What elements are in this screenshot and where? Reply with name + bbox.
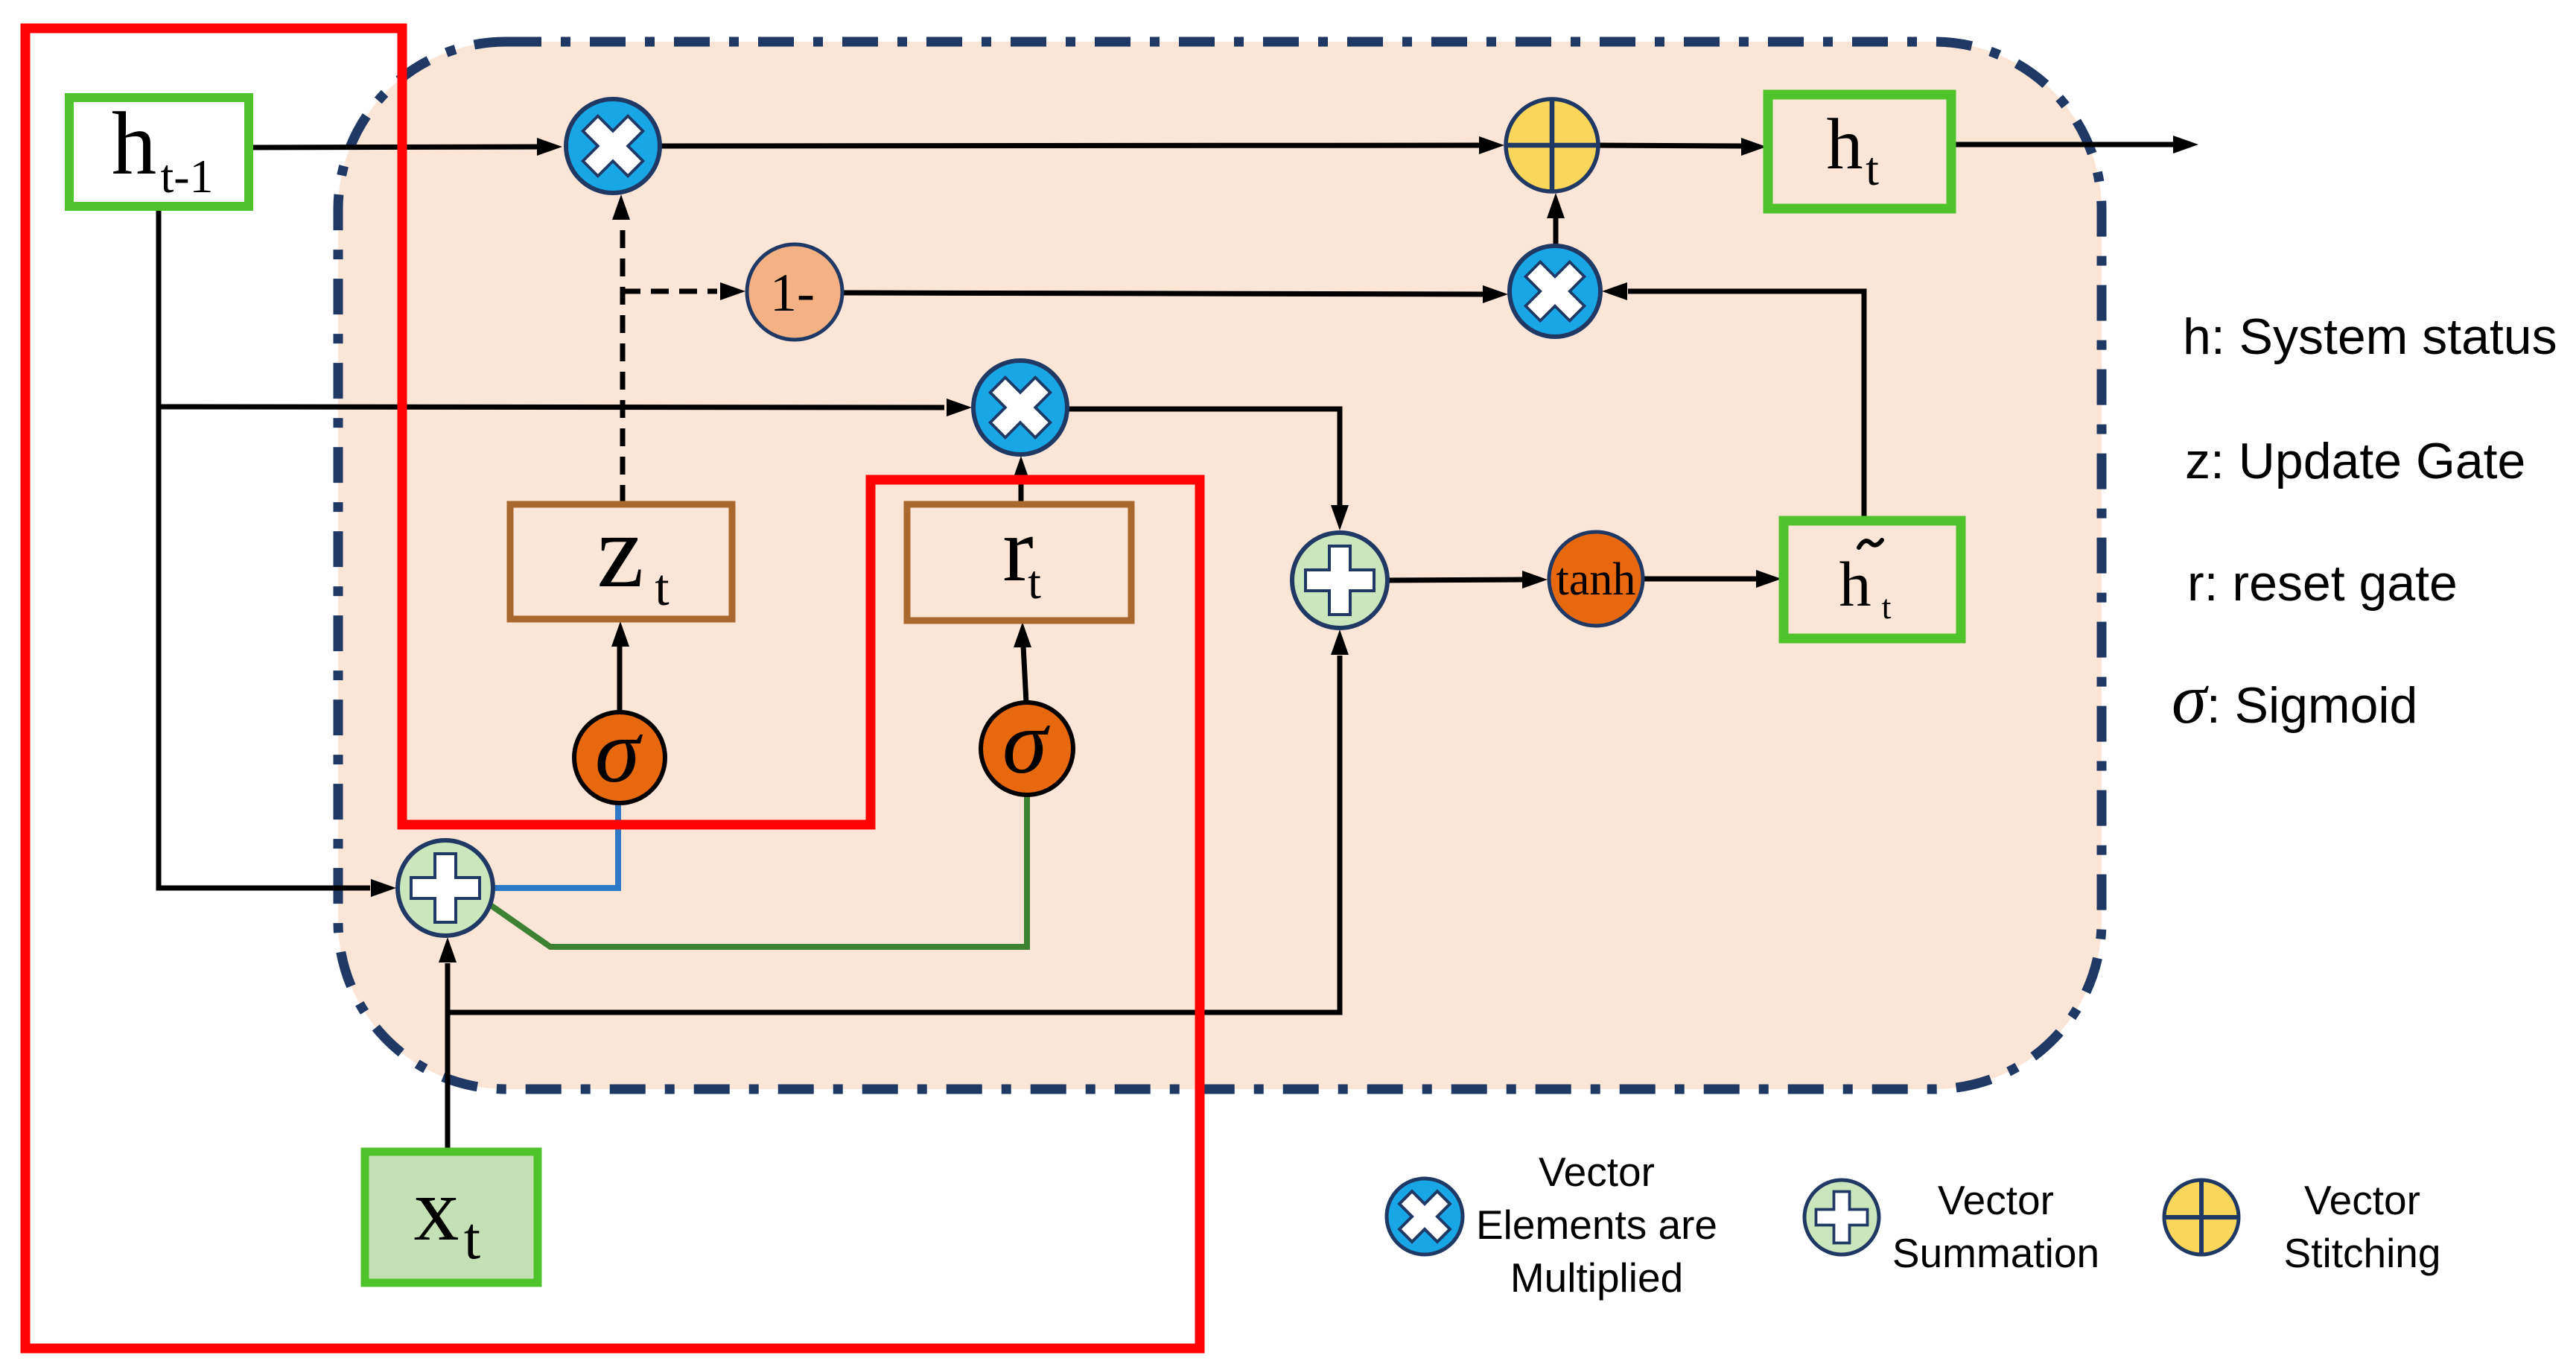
small summation circle: [398, 840, 493, 936]
box h~_t (candidate state): [1784, 521, 1961, 638]
stitch circle (yellow): [1506, 99, 1598, 191]
wire arrowheads: [371, 136, 2198, 962]
arrowhead into stitch circle left: [1479, 136, 1504, 154]
svg-text:Vector: Vector: [1539, 1149, 1655, 1195]
arrowhead into h~ box: [1756, 570, 1781, 588]
svg-text:Summation: Summation: [1892, 1230, 2099, 1276]
svg-text:1-: 1-: [770, 263, 815, 323]
wire h~ up and left into X2: [1628, 291, 1864, 521]
wire sigma_r to r_t: [1023, 646, 1026, 702]
legend summation caption: [1892, 1177, 2099, 1276]
legend stitch symbol: [2164, 1180, 2239, 1255]
legend text h: System status: [2172, 308, 2557, 738]
legend stitch caption: [2284, 1177, 2441, 1276]
arrowhead of output wire: [2173, 136, 2198, 153]
arrowhead into tanh: [1522, 571, 1548, 589]
svg-text:tanh: tanh: [1556, 554, 1636, 605]
arrowhead into X3 left: [947, 399, 972, 416]
svg-text:σ: Sigmoid: σ: Sigmoid: [2172, 659, 2417, 738]
multiplier X1: [566, 99, 660, 193]
svg-text:h: h: [1827, 104, 1863, 185]
tanh circle: [1549, 532, 1643, 626]
svg-text:Vector: Vector: [2304, 1177, 2420, 1223]
wire X3 right then down to big summation: [1067, 409, 1340, 505]
wire sigma_z to z_t: [617, 647, 623, 712]
arrowhead into X2 right: [1602, 282, 1627, 300]
sigma circle of r gate: [981, 692, 1073, 795]
one-minus circle: [747, 244, 842, 340]
wire X1 to stitch circle: [658, 145, 1481, 146]
svg-text:x: x: [414, 1159, 459, 1260]
wire X2 up to stitch circle: [1553, 218, 1559, 246]
wire branch from h_{t-1} line to X3: [159, 407, 944, 407]
svg-text:t: t: [464, 1206, 480, 1272]
sigma circle of z gate: [574, 701, 665, 803]
svg-text:t: t: [1882, 588, 1892, 626]
red highlight outline: [25, 28, 1200, 1348]
arrowhead into small summation left: [371, 879, 396, 897]
svg-text:z: z: [597, 492, 643, 609]
arrowhead into X2 left: [1483, 285, 1508, 303]
arrowhead into stitch circle bottom: [1547, 193, 1565, 218]
box r_t (reset gate): [907, 498, 1131, 621]
blue wire small summation to sigma_z: [494, 803, 618, 888]
wire h_t output: [1950, 142, 2173, 148]
arrowhead into big summation top: [1331, 505, 1349, 530]
wire x_t up to small summation: [445, 963, 451, 1152]
arrowhead into big summation bottom: [1331, 629, 1349, 655]
arrowhead into h_t: [1741, 138, 1766, 156]
wire tanh to h~: [1642, 577, 1758, 582]
wire r_t to X3: [1019, 480, 1024, 504]
arrowhead of dashed wire into X1 bottom: [612, 194, 630, 220]
black signal wires: [159, 145, 2173, 1152]
svg-text:Elements are: Elements are: [1476, 1202, 1717, 1248]
arrowhead into X3 bottom: [1012, 456, 1030, 481]
arrowhead into X1: [537, 138, 562, 156]
big summation circle: [1292, 533, 1387, 628]
dashed z-gate wires: [623, 220, 717, 503]
svg-text:z: Update Gate: z: Update Gate: [2185, 433, 2525, 489]
wire x_t branch right and up to big summation: [448, 656, 1340, 1012]
svg-text:t: t: [1028, 556, 1041, 609]
svg-text:Stitching: Stitching: [2284, 1230, 2441, 1276]
svg-text:σ: σ: [1002, 692, 1051, 793]
GRU cell body (peach rounded rect, navy dash-dot border): [338, 42, 2102, 1089]
arrowhead into small summation bottom: [439, 937, 457, 962]
legend multiplier caption: [1476, 1149, 1717, 1301]
svg-text:Vector: Vector: [1938, 1177, 2054, 1223]
multiplier X2: [1510, 246, 1600, 337]
box h_{t-1}: [69, 94, 249, 206]
legend multiplier symbol: [1387, 1179, 1463, 1255]
svg-text:r: reset gate: r: reset gate: [2187, 555, 2458, 612]
svg-text:t-1: t-1: [160, 150, 213, 203]
box h_t: [1768, 95, 1951, 209]
svg-text:h: h: [1839, 548, 1871, 620]
svg-text:h: System status: h: System status: [2183, 308, 2557, 365]
svg-text:Multiplied: Multiplied: [1510, 1255, 1683, 1301]
svg-text:h: h: [112, 94, 157, 194]
wire stitch circle to h_t: [1597, 145, 1743, 146]
svg-text:t: t: [655, 559, 670, 617]
svg-text:σ: σ: [595, 701, 643, 802]
legend summation symbol: [1804, 1180, 1879, 1255]
dashed wire branch to 1- circle: [623, 289, 717, 294]
svg-text:t: t: [1866, 142, 1879, 195]
wire h_{t-1} to multiplier X1: [249, 147, 541, 148]
arrowhead of dashed wire into 1- circle: [720, 282, 745, 300]
arrowhead into r_t: [1014, 622, 1031, 647]
box x_t (input): [365, 1152, 538, 1283]
dashed wire z_t up to X1: [620, 220, 626, 503]
wire big summation to tanh: [1387, 580, 1523, 580]
arrowhead into z_t: [611, 621, 629, 647]
wire h_{t-1} down left side to small summation: [159, 206, 370, 888]
wire 1- circle to X2: [844, 293, 1483, 294]
green wire small summation to sigma_r: [486, 796, 1027, 947]
box z_t (update gate): [510, 492, 732, 619]
multiplier X3: [973, 361, 1067, 454]
